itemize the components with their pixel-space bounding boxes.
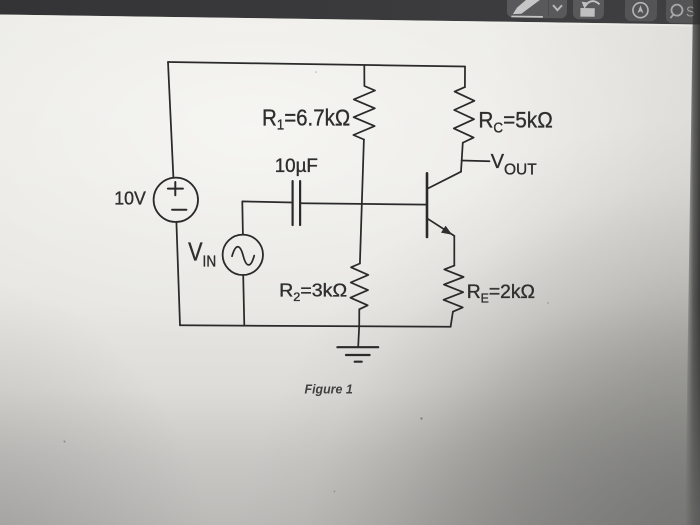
wire RE to bottom: [451, 312, 453, 327]
wire Vout tap: [462, 160, 490, 163]
wire top rail: [168, 62, 465, 67]
right screen edge: [685, 0, 700, 525]
svg-text:RE=2kΩ: RE=2kΩ: [467, 281, 535, 306]
wire left rail lower: [176, 222, 180, 325]
wire emitter down: [453, 236, 455, 266]
toolbar pen button: [507, 0, 567, 18]
wire Vin branch lower: [243, 275, 244, 326]
wire base: [300, 203, 427, 204]
wire left rail upper: [168, 62, 173, 178]
toolbar bar: [0, 0, 1, 1]
resistor RC: [454, 87, 475, 142]
wire R2 to bottom: [358, 309, 360, 326]
wire bottom rail: [180, 325, 451, 327]
resistor R2: [350, 264, 368, 310]
svg-text:R2=3kΩ: R2=3kΩ: [279, 281, 347, 304]
transistor Q1: [426, 173, 429, 237]
svg-text:RC=5kΩ: RC=5kΩ: [478, 107, 552, 136]
source VIN: [223, 235, 263, 275]
svg-text:R1=6.7kΩ: R1=6.7kΩ: [262, 104, 350, 133]
capacitor C1: [292, 181, 294, 225]
svg-text:VOUT: VOUT: [491, 151, 537, 179]
ground: [358, 326, 359, 346]
resistor RE: [444, 266, 464, 312]
toolbar search button: [666, 0, 700, 24]
wire collector: [461, 143, 463, 172]
svg-text:Figure 1: Figure 1: [305, 382, 353, 396]
toolbar rotate button: [573, 0, 604, 19]
svg-text:10V: 10V: [114, 187, 146, 209]
toolbar compass button: [625, 0, 657, 21]
wire Vin to cap: [242, 201, 292, 234]
wire mid vertical: [360, 140, 364, 264]
resistor R1: [353, 66, 375, 140]
wire RC top: [464, 67, 466, 88]
dust specks: [64, 71, 549, 492]
source 10V: [154, 178, 198, 222]
bottom-right corner shading: [350, 300, 700, 525]
svg-text:10µF: 10µF: [275, 156, 318, 177]
svg-text:VIN: VIN: [188, 239, 216, 271]
